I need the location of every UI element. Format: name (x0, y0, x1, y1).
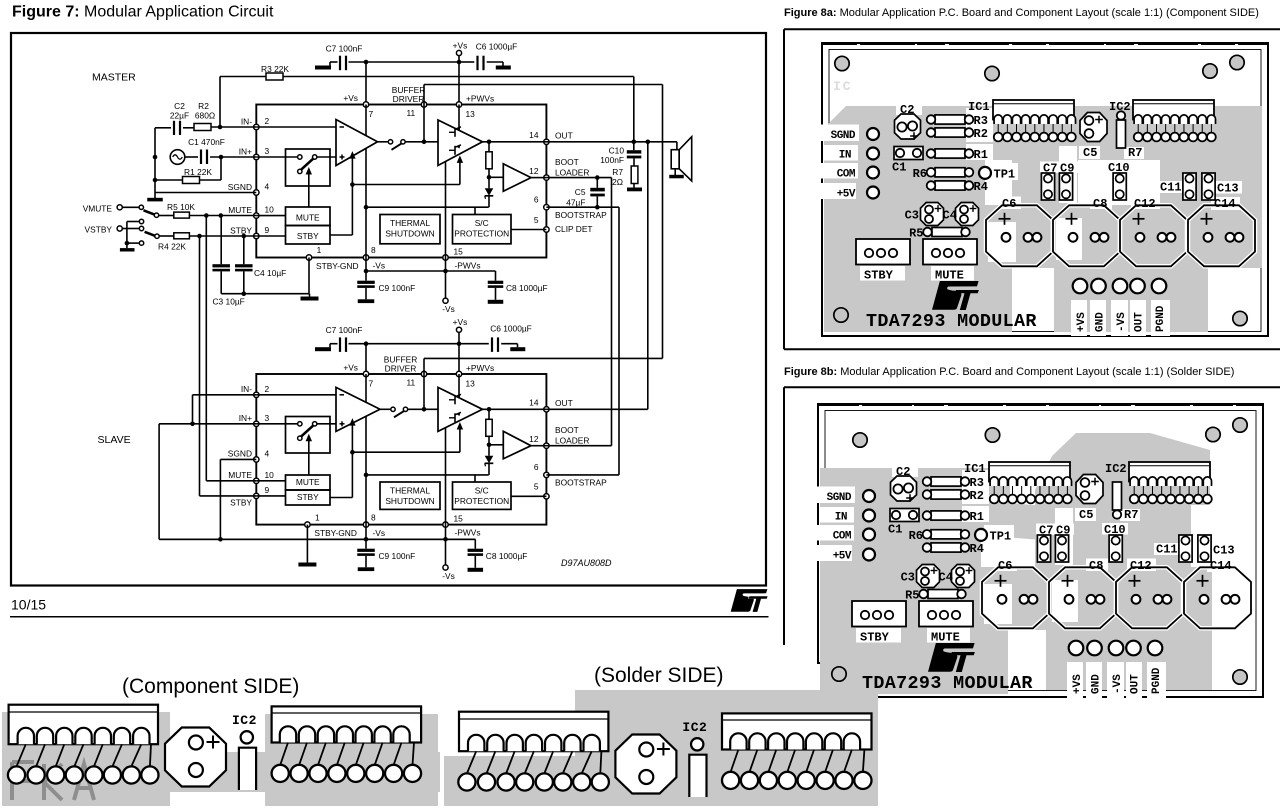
svg-text:IN: IN (839, 150, 851, 162)
pin 14 OUT (master) (544, 139, 549, 144)
capacitor C6 (slave) (459, 343, 489, 345)
svg-text:C11: C11 (1160, 181, 1182, 195)
svg-text:IC1: IC1 (964, 462, 986, 476)
svg-text:MUTE: MUTE (228, 470, 252, 480)
svg-text:R1 22K: R1 22K (184, 167, 212, 177)
wire op-amp to pin8 (slave) (365, 416, 367, 524)
-Vs terminal (master) (445, 271, 447, 298)
figure 7 frame (11, 33, 766, 586)
pin 1 STBY-GND (slave) (305, 522, 310, 527)
svg-text:MUTE: MUTE (931, 631, 960, 645)
svg-text:OUT: OUT (555, 398, 573, 408)
svg-text:MASTER: MASTER (92, 72, 136, 84)
pin 5 (master) (544, 227, 549, 232)
pin 12 bootloader (slave) (544, 443, 549, 448)
svg-text:R2: R2 (970, 489, 984, 503)
pcb C1 (8b) (890, 509, 919, 522)
svg-text:15: 15 (454, 514, 464, 524)
pcb C14 (8a) (1188, 205, 1255, 266)
fragment pads left (solder side) (458, 773, 475, 790)
pin 2 (master) (254, 124, 259, 129)
wire pin10 to MUTE block (slave) (256, 480, 285, 482)
svg-text:OUT: OUT (555, 130, 573, 140)
mounting holes 8b (853, 433, 867, 447)
capacitor C6 (master) (459, 61, 474, 63)
ground (speaker) (669, 175, 684, 179)
pcb C10 (8a) (1113, 173, 1126, 200)
wire driver out (slave) (483, 408, 547, 410)
pcb C13 (8b) (1198, 535, 1211, 562)
capacitor C1 (185, 156, 198, 158)
pin 14 OUT (slave) (544, 407, 549, 412)
MUTE block (master) (286, 207, 331, 226)
wire pin8 to -Vs rail (slave) (365, 525, 367, 540)
svg-text:IC2: IC2 (1109, 100, 1131, 114)
svg-text:C9 100nF: C9 100nF (379, 283, 416, 293)
ground (pin1 master) (301, 297, 319, 301)
svg-text:C3: C3 (905, 209, 919, 223)
svg-text:C10: C10 (1104, 523, 1126, 537)
svg-text:DRIVER: DRIVER (393, 94, 425, 104)
capacitor C9 (slave) (365, 539, 367, 548)
wire pin7 into op-amp (master) (365, 105, 367, 136)
svg-text:9: 9 (265, 485, 270, 495)
svg-text:22µF: 22µF (170, 110, 189, 120)
svg-text:R7: R7 (1124, 508, 1138, 522)
pcb C1 (8a) (894, 147, 923, 160)
pcb C6 (8a) (986, 205, 1053, 266)
svg-text:-Vs: -Vs (373, 528, 386, 538)
pcb C6 (8b) (982, 567, 1049, 628)
wire zener to s/c (slave) (366, 474, 489, 476)
svg-text:C7: C7 (1043, 162, 1057, 176)
ground (C9 master) (358, 299, 375, 303)
pin 6 bootstrap (slave) (544, 472, 549, 477)
pcb C7 (8a) (1041, 173, 1054, 200)
svg-text:+VS: +VS (1072, 674, 1084, 694)
svg-text:BOOT: BOOT (555, 157, 579, 167)
svg-text:C6: C6 (1002, 197, 1016, 211)
svg-text:TP1: TP1 (990, 530, 1012, 544)
svg-text:C5: C5 (1083, 146, 1097, 160)
svg-text:TP1: TP1 (994, 168, 1016, 182)
pcb board outline 8a (822, 43, 1268, 336)
pcb MUTE connector (8b) (919, 601, 973, 627)
svg-text:-Vs: -Vs (373, 261, 386, 271)
svg-text:C6 1000µF: C6 1000µF (476, 42, 518, 52)
wire slave SGND (220, 458, 256, 460)
pin 15 -PWVs (slave) (443, 522, 448, 527)
pcb R6 (8a) (935, 168, 965, 177)
svg-text:CLIP DET: CLIP DET (555, 224, 593, 234)
svg-text:C13: C13 (1213, 544, 1235, 558)
svg-text:2: 2 (265, 384, 270, 394)
wire speaker return bus (647, 142, 649, 410)
svg-text:C12: C12 (1134, 197, 1156, 211)
svg-text:C4: C4 (943, 209, 957, 223)
wire pin13 into driver (master) (458, 105, 460, 131)
pcb R2 (8a) (935, 128, 965, 137)
svg-text:C6 1000µF: C6 1000µF (490, 323, 532, 333)
svg-text:GND: GND (1095, 312, 1107, 332)
VSTBY switch (122, 228, 127, 230)
svg-text:C7: C7 (1039, 524, 1053, 538)
ground (input) (154, 193, 156, 199)
wire slave pin12 net (546, 445, 611, 447)
wire driver to pin15 (master) (445, 162, 447, 258)
svg-text:R5: R5 (909, 227, 923, 241)
svg-text:C1: C1 (892, 161, 906, 175)
pin 1 STBY-GND (master) (306, 255, 311, 260)
fragment copper left (2, 712, 170, 806)
pcb C9 (8b) (1055, 535, 1068, 562)
fragment pads right (solder side) (722, 772, 739, 789)
internal resistor (master) (486, 152, 492, 169)
wire driver out (master) (483, 141, 547, 143)
svg-text:STBY: STBY (297, 492, 319, 502)
svg-text:R1: R1 (970, 510, 984, 524)
svg-text:C9: C9 (1056, 524, 1070, 538)
svg-text:Figure 8a: Modular Application: Figure 8a: Modular Application P.C. Boar… (784, 7, 1259, 19)
bootloader buffer (master) (503, 164, 531, 192)
svg-text:C6: C6 (998, 559, 1012, 573)
svg-text:C10: C10 (1108, 161, 1130, 175)
svg-text:3: 3 (265, 146, 270, 156)
svg-text:R3: R3 (974, 114, 988, 128)
power driver stage (slave) (438, 387, 483, 431)
svg-text:R4: R4 (974, 180, 988, 194)
svg-text:C7 100nF: C7 100nF (326, 43, 363, 53)
pin 2 (slave) (254, 392, 259, 397)
fragment capacitor C5 (component side) (165, 728, 226, 787)
svg-text:STBY: STBY (230, 225, 252, 235)
ST logo (731, 589, 768, 612)
svg-text:SHUTDOWN: SHUTDOWN (385, 496, 434, 506)
svg-text:C8: C8 (1093, 197, 1107, 211)
footer rule (10, 616, 769, 618)
figure 8a frame (784, 28, 1280, 30)
S/C protection block (slave) (453, 482, 512, 509)
IC block TDA7293 (master) (256, 105, 546, 258)
svg-text:BOOT: BOOT (555, 425, 579, 435)
svg-text:PGND: PGND (1151, 667, 1163, 694)
svg-text:OUT: OUT (1130, 674, 1142, 694)
pcb output pads (8a) (1073, 279, 1088, 294)
pin 8 -Vs (master) (363, 255, 368, 260)
svg-text:LOADER: LOADER (555, 167, 589, 177)
svg-text:R6: R6 (913, 167, 927, 181)
pin 12 bootloader (master) (544, 175, 549, 180)
svg-text:R5: R5 (905, 589, 919, 603)
mute arrow into switch (master) (308, 171, 310, 207)
ground (C8 master) (488, 300, 504, 304)
svg-text:12: 12 (529, 434, 539, 444)
wire pin6 net (master) (546, 206, 619, 208)
-Vs terminal (slave) (445, 539, 447, 565)
capacitor C5 (596, 178, 598, 188)
input switch box (slave) (286, 417, 331, 454)
wire pin2 to op-amp (master) (256, 126, 336, 128)
svg-text:C1: C1 (888, 523, 902, 537)
pcb C10 (8b) (1109, 535, 1122, 562)
svg-text:VMUTE: VMUTE (83, 203, 113, 213)
svg-text:+PWVs: +PWVs (466, 363, 494, 373)
fragment copper right (575, 690, 878, 806)
ground (C8 slave) (468, 568, 484, 572)
resistor R4 (159, 235, 174, 237)
svg-text:5: 5 (534, 215, 539, 225)
wire pin7 into op-amp (slave) (365, 374, 367, 402)
svg-text:IC2: IC2 (682, 720, 707, 735)
pcb output pads (8b) (1069, 641, 1084, 656)
svg-text:1: 1 (317, 245, 322, 255)
wire STBY net (189, 235, 256, 237)
svg-text:C1 470nF: C1 470nF (188, 137, 225, 147)
wire C3/C4 ground (221, 293, 309, 295)
pcb C9 (8a) (1059, 173, 1072, 200)
wire +Vs rail (master) (349, 61, 460, 63)
capacitor C9 (master) (365, 271, 367, 281)
svg-text:COM: COM (837, 169, 856, 181)
pcb TP1 (8a) (979, 167, 991, 179)
pin 6 bootstrap (master) (544, 205, 549, 210)
op-amp input stage (master) (336, 120, 378, 166)
wire s/c to pin5 (master) (511, 229, 546, 231)
svg-text:4: 4 (265, 448, 270, 458)
svg-text:+5V: +5V (837, 189, 856, 201)
svg-text:Figure 8b: Modular Application: Figure 8b: Modular Application P.C. Boar… (784, 366, 1234, 378)
svg-text:C10: C10 (609, 145, 625, 155)
resistor R5 (159, 215, 174, 217)
svg-text:6: 6 (534, 195, 539, 205)
svg-text:TDA7293 MODULAR: TDA7293 MODULAR (866, 311, 1037, 332)
pcb C12 (8b) (1116, 567, 1183, 628)
switch contacts (master) (298, 155, 302, 159)
wire pin3 to switch (master) (256, 156, 297, 158)
ground (C6 slave) (510, 347, 525, 351)
svg-text:MUTE: MUTE (935, 269, 964, 283)
svg-text:100nF: 100nF (600, 155, 624, 165)
fragment capacitor C5 (solder side) (615, 735, 676, 794)
input switch box (master) (286, 149, 331, 186)
S/C protection block (master) (453, 215, 512, 244)
pcb C3 (8b) (917, 565, 940, 588)
wire pin2 to op-amp (slave) (256, 394, 336, 396)
pcb R1 (8b) (931, 511, 961, 520)
svg-text:PROTECTION: PROTECTION (454, 496, 509, 506)
mute arrow into driver (master) (352, 184, 460, 186)
svg-text:SGND: SGND (228, 449, 252, 459)
pcb TP1 (8b) (975, 529, 987, 541)
pcb R3 (8a) (935, 115, 965, 124)
pcb C13 (8a) (1202, 173, 1215, 200)
resistor R2 (194, 124, 211, 131)
fragment copper texture (12, 762, 94, 800)
mute arrow into switch (slave) (308, 438, 310, 475)
svg-text:R2: R2 (974, 127, 988, 141)
pcb C4 (8b) (952, 565, 975, 588)
pcb R1 (8a) (935, 149, 965, 158)
fragment connector right (component side) (272, 706, 422, 742)
mounting holes 8a (835, 56, 849, 70)
STBY block (master) (286, 226, 331, 245)
svg-text:3: 3 (265, 413, 270, 423)
wire slave OUT (546, 408, 647, 410)
wire driver to pin15 (slave) (445, 428, 447, 525)
svg-text:C5: C5 (1079, 508, 1093, 522)
svg-text:STBY: STBY (230, 498, 252, 508)
fragment connector left (solder side) (459, 712, 608, 752)
pin 3 (slave) (254, 421, 259, 426)
wire pin8 to -Vs rail (master) (365, 258, 367, 272)
svg-text:STBY: STBY (297, 231, 319, 241)
svg-text:C5: C5 (575, 187, 586, 197)
ground (C6 master) (496, 66, 511, 70)
svg-text:R4: R4 (970, 542, 984, 556)
svg-text:SHUTDOWN: SHUTDOWN (385, 229, 434, 239)
pcb C4 (8a) (956, 203, 979, 226)
svg-text:11: 11 (407, 108, 416, 118)
pin 5 (slave) (544, 494, 549, 499)
svg-text:14: 14 (529, 130, 539, 140)
svg-text:SLAVE: SLAVE (98, 434, 131, 446)
pcb board outline 8b (818, 404, 1263, 697)
svg-text:STBY: STBY (864, 269, 894, 283)
wire op-amp to pin8 (master) (365, 148, 367, 257)
pin 13 +PWVs (master) (456, 102, 461, 107)
pin 7 +Vs (slave) (363, 371, 368, 376)
mute arrow into driver (slave) (352, 451, 460, 453)
pcb R6 (8b) (931, 530, 961, 539)
svg-text:47µF: 47µF (566, 198, 585, 208)
svg-text:PROTECTION: PROTECTION (454, 229, 509, 239)
svg-text:MUTE: MUTE (296, 212, 320, 222)
pcb C2 (8a) (895, 114, 921, 139)
zener diode (slave) (488, 445, 490, 456)
svg-text:IN: IN (835, 512, 847, 524)
thermal shutdown block (slave) (380, 482, 440, 509)
svg-text:VSTBY: VSTBY (85, 224, 113, 234)
wire slave pin1 ground stub (306, 525, 308, 563)
STBY block (slave) (286, 490, 331, 505)
svg-text:12: 12 (529, 166, 539, 176)
svg-text:-PWVs: -PWVs (455, 528, 481, 538)
pcb STBY connector (8b) (852, 601, 906, 627)
pin 4 (master) (254, 190, 259, 195)
svg-text:13: 13 (466, 109, 476, 119)
svg-text:2: 2 (265, 116, 270, 126)
pcb R3 (8b) (931, 477, 961, 486)
svg-text:R4 22K: R4 22K (158, 241, 186, 251)
svg-text:10: 10 (265, 205, 275, 215)
-Vs rail (slave) (159, 538, 475, 540)
svg-text:SGND: SGND (831, 130, 856, 142)
ground (C9 slave) (358, 567, 375, 571)
internal resistor (slave) (486, 419, 492, 436)
stby arrow to op-amp (slave) (330, 497, 352, 499)
svg-text:+Vs: +Vs (453, 317, 468, 327)
svg-text:11: 11 (407, 377, 416, 387)
pcb C11 (8b) (1179, 535, 1192, 562)
svg-text:14: 14 (529, 397, 539, 407)
svg-text:C3: C3 (901, 571, 915, 585)
pcb ST logo (8a) (932, 281, 979, 310)
svg-text:IN-: IN- (241, 384, 252, 394)
capacitor C3 (220, 216, 222, 265)
svg-text:C9 100nF: C9 100nF (379, 551, 416, 561)
svg-text:R1: R1 (974, 148, 988, 162)
svg-text:R3 22K: R3 22K (261, 64, 289, 74)
wire pin15 stub (master) (445, 258, 447, 272)
pcb R4 (8a) (935, 181, 965, 190)
wire pin15 stub (slave) (445, 525, 447, 540)
wire SGND (155, 192, 256, 194)
svg-text:5: 5 (534, 482, 539, 492)
wire mute master-to-slave (205, 216, 207, 481)
svg-text:+Vs: +Vs (343, 93, 358, 103)
switch contacts (slave) (298, 422, 302, 426)
svg-text:OUT: OUT (1134, 312, 1146, 332)
wire pin13 into driver (slave) (458, 374, 460, 398)
wire input left rail (154, 128, 156, 193)
wire pin9 to STBY block (master) (256, 235, 285, 237)
svg-text:IC1: IC1 (968, 100, 990, 114)
fragment connector left (component side) (9, 705, 158, 745)
fragment R7 (component side) (241, 731, 253, 743)
resistor R3 feedback (219, 77, 221, 128)
wire slave pin6 net (546, 474, 619, 476)
pcb R4 (8b) (931, 543, 961, 552)
svg-text:COM: COM (833, 531, 852, 543)
stby arrow to op-amp (master) (330, 234, 352, 236)
pcb C8 (8a) (1053, 205, 1120, 266)
svg-text:THERMAL: THERMAL (390, 486, 430, 496)
pin 4 (slave) (254, 457, 259, 462)
capacitor C10 (633, 142, 635, 150)
capacitor C8 (master) (495, 271, 497, 281)
svg-text:7: 7 (369, 109, 374, 119)
pin 15 -PWVs (master) (443, 255, 448, 260)
svg-text:Figure 7: Modular Application: Figure 7: Modular Application Circuit (12, 4, 274, 21)
pcb STBY connector (8a) (856, 239, 910, 265)
pcb MUTE connector (8a) (923, 239, 977, 265)
svg-text:+5V: +5V (833, 551, 852, 563)
power driver stage (master) (438, 120, 483, 166)
svg-text:IC: IC (833, 79, 853, 94)
svg-text:C12: C12 (1130, 559, 1152, 573)
wire pin9 to STBY block (slave) (256, 495, 285, 497)
pcb ST logo (8b) (928, 643, 975, 672)
ground (pin1 slave) (298, 563, 316, 567)
capacitor C2 (155, 127, 171, 129)
svg-text:IC2: IC2 (232, 713, 257, 728)
svg-text:LOADER: LOADER (555, 435, 589, 445)
wire OUT net (master) (546, 141, 677, 143)
svg-text:C9: C9 (1060, 162, 1074, 176)
VMUTE switch (122, 206, 138, 208)
wire buffer driver bus (662, 85, 664, 359)
svg-text:1: 1 (315, 512, 320, 522)
fragment pads left (component side) (8, 766, 25, 783)
wire bootloader bus (611, 178, 613, 446)
fragment connector right (solder side) (722, 713, 872, 749)
wire pin1 to ground (master) (308, 258, 310, 294)
MUTE block (slave) (286, 475, 331, 490)
pin 13 +PWVs (slave) (456, 371, 461, 376)
svg-text:STBY-GND: STBY-GND (314, 528, 357, 538)
svg-text:IN+: IN+ (239, 413, 252, 423)
svg-text:10/15: 10/15 (11, 597, 46, 613)
